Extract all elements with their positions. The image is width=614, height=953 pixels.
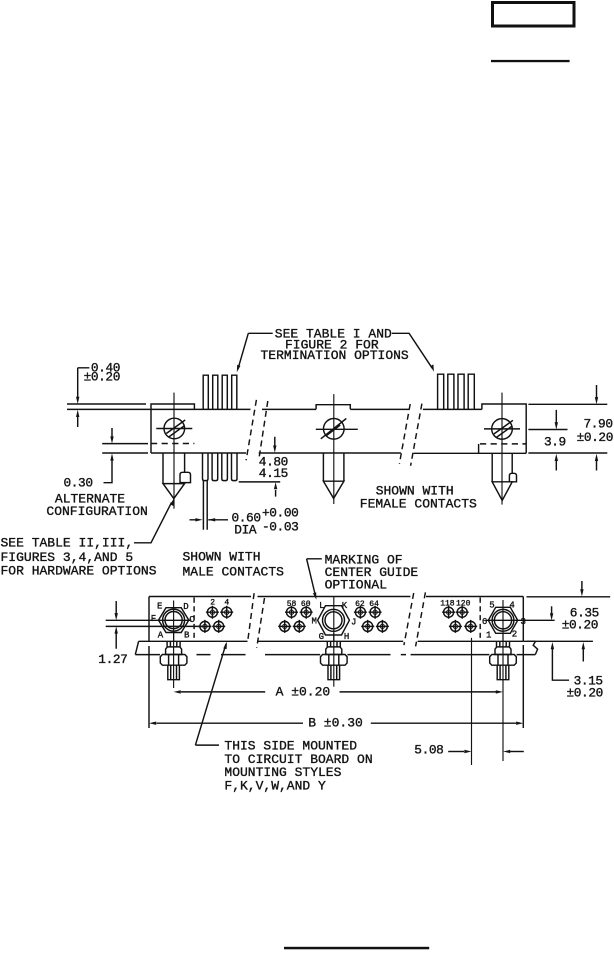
svg-text:K: K: [342, 601, 348, 611]
svg-text:3.9: 3.9: [544, 435, 566, 450]
svg-text:7.90: 7.90: [584, 416, 613, 431]
svg-text:G: G: [319, 632, 324, 642]
left ear: [67, 404, 194, 453]
right ear: [482, 404, 526, 453]
note: see table I and figure 2 + leaders: [237, 326, 434, 372]
contact symbols right section: [442, 606, 477, 633]
svg-text:CONFIGURATION: CONFIGURATION: [46, 504, 147, 519]
svg-text:SHOWN WITH: SHOWN WITH: [183, 550, 261, 565]
svg-text:F: F: [151, 614, 156, 624]
break lines left pair (dashed): [246, 400, 268, 460]
circuit board strip: [135, 641, 537, 654]
letters G-M: [312, 601, 357, 642]
board top edge extensions: [139, 640, 536, 642]
jackpost hardware left: [160, 633, 187, 688]
underline top right: [491, 60, 570, 62]
termination bars right group: [438, 374, 475, 409]
svg-text:±0.20: ±0.20: [562, 618, 598, 633]
svg-text:SEE TABLE II,III,: SEE TABLE II,III,: [1, 536, 134, 551]
svg-text:J: J: [351, 617, 356, 627]
contact symbols left section: [198, 606, 233, 633]
right post pin (female): [492, 393, 516, 505]
jackpost hardware right: [490, 633, 517, 761]
left post pin (male, alternate config): [163, 393, 191, 509]
break lines bottom view right pair: [404, 592, 426, 646]
svg-text:2: 2: [512, 629, 517, 639]
section divider dashed right: [479, 598, 481, 642]
contacts 2,4: [210, 599, 229, 608]
svg-text:±0.20: ±0.20: [84, 370, 120, 385]
section divider dashed left: [193, 598, 195, 642]
mounting hole middle: [316, 419, 358, 440]
right ear hidden line (dashed): [480, 443, 526, 445]
dim 0.30 left lower: [64, 428, 149, 490]
svg-text:1.27: 1.27: [98, 652, 127, 667]
svg-text:5: 5: [489, 601, 494, 611]
break lines right pair (dashed): [399, 404, 422, 466]
svg-text:MALE CONTACTS: MALE CONTACTS: [183, 565, 285, 580]
middle guide pin: [323, 394, 344, 504]
svg-text:1: 1: [486, 630, 491, 640]
dim 7.90 / 3.9 right: [528, 385, 613, 471]
centerline rows extending left (1.27 ref): [106, 620, 205, 626]
note: marking of center guide optional + leader: [307, 553, 419, 600]
svg-text:H: H: [344, 632, 349, 642]
letters A-F: [151, 601, 196, 640]
svg-text:-0.03: -0.03: [262, 520, 298, 535]
middle ear: [316, 405, 350, 410]
mounting hole right: [484, 419, 520, 440]
svg-text:FEMALE CONTACTS: FEMALE CONTACTS: [360, 497, 477, 512]
body outline: [149, 597, 523, 642]
svg-text:3: 3: [521, 617, 526, 627]
svg-text:M: M: [312, 616, 317, 626]
dim 4.80 / 4.15: [239, 437, 288, 497]
contacts 118,120 labels: [440, 599, 470, 608]
jack socket hex A-F: [159, 601, 189, 642]
center guide hex G-M: [318, 597, 350, 641]
svg-text:TERMINATION OPTIONS: TERMINATION OPTIONS: [261, 348, 409, 363]
board right broken end: [533, 641, 537, 654]
keying hex 1-6: [486, 600, 555, 641]
svg-text:F,K,V,W,AND Y: F,K,V,W,AND Y: [224, 779, 326, 794]
dim 5.08: [414, 743, 524, 758]
rail top edge segments: [67, 408, 482, 410]
dim 6.35 right: [527, 581, 611, 633]
dim A ±0.20: [174, 684, 503, 699]
mounting hole left (circle + centerlines + slashes): [156, 418, 192, 439]
contacts 58,60,62,64 labels: [287, 600, 379, 609]
svg-text:B: B: [184, 631, 190, 641]
dim 0.60 +0.00/-0.03 DIA: [190, 506, 299, 538]
0.60 dia wire pin: [203, 481, 207, 530]
dim 1.27: [98, 601, 127, 667]
board left broken end: [135, 641, 138, 654]
right ear notch: [478, 444, 480, 453]
note: see table II,III hardware options + leader: [1, 499, 174, 579]
note: this side mounted + leader: [195, 642, 372, 794]
svg-text:4.15: 4.15: [259, 466, 288, 481]
termination bars left group: [203, 375, 237, 409]
svg-text:A ±0.20: A ±0.20: [276, 684, 331, 699]
male contact bars below rail: [203, 453, 238, 481]
board bottom edge: [135, 654, 535, 656]
svg-text:FOR HARDWARE OPTIONS: FOR HARDWARE OPTIONS: [1, 564, 157, 579]
svg-text:±0.20: ±0.20: [577, 430, 613, 445]
bottom center rule: [284, 947, 429, 950]
dim 3.15 right: [527, 641, 603, 700]
title block box top right: [493, 3, 575, 27]
contact column reference line (5.08): [471, 638, 473, 765]
jackpost hardware middle: [321, 633, 348, 687]
svg-text:6: 6: [482, 617, 487, 627]
svg-text:0.30: 0.30: [64, 475, 93, 490]
break lines bottom view left pair: [248, 593, 265, 648]
svg-text:E: E: [157, 601, 162, 611]
left ear hidden line (dashed): [151, 443, 194, 445]
contact symbols middle section: [278, 606, 389, 633]
svg-text:+0.00: +0.00: [262, 506, 298, 521]
numbers 1-6: [482, 601, 526, 641]
svg-text:D: D: [183, 602, 188, 612]
dim 0.40/±0.20 left: [76, 360, 120, 427]
svg-text:DIA: DIA: [234, 522, 257, 537]
svg-text:4: 4: [509, 601, 514, 611]
svg-text:5.08: 5.08: [414, 743, 443, 758]
rail bottom edge segments: [151, 452, 526, 454]
svg-text:A: A: [158, 631, 164, 641]
dim B ±0.30: [149, 645, 523, 731]
svg-text:B ±0.30: B ±0.30: [308, 716, 363, 731]
svg-text:±0.20: ±0.20: [567, 686, 603, 701]
svg-text:OPTIONAL: OPTIONAL: [325, 577, 387, 592]
svg-text:L: L: [319, 601, 324, 611]
